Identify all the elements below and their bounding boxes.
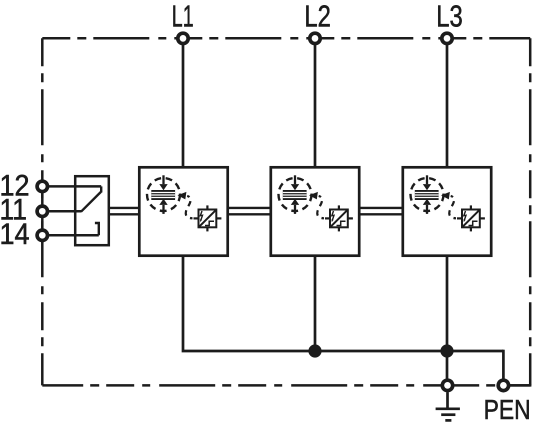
svg-text:L3: L3 <box>436 0 463 33</box>
solid border segment from PEN terminal to bottom-right corner <box>505 384 531 387</box>
dashed trigger line from trigger unit to spark gap F2 <box>317 196 324 218</box>
wire terminal 12 to changeover contact <box>46 185 101 188</box>
spark gap F1 dashed circle <box>147 178 180 211</box>
spark gap F2 electrode plate stack <box>283 190 307 200</box>
device enclosure dashed border, top edge <box>42 37 530 40</box>
trigger line arrowhead into spark gap F3 <box>441 192 450 200</box>
trigger unit A1 box <box>199 210 217 228</box>
trigger unit A3 box <box>462 210 480 228</box>
contact 12 fixed anvil tick <box>100 186 102 192</box>
dashed trigger line from trigger unit to spark gap F1 <box>186 196 193 218</box>
spark gap F2 dashed circle <box>279 178 312 211</box>
wire terminal 14 to changeover contact <box>46 234 99 237</box>
device enclosure dashed border, left edge <box>41 38 44 385</box>
mechanical linkage K1 to module U1 (double line) <box>110 208 139 214</box>
spark gap F3 dashed circle <box>411 178 444 211</box>
wire L1 module U1 to PEN bus with corner <box>183 256 503 352</box>
trigger unit A1 diagonal <box>199 209 217 227</box>
trigger unit A1 pin stubs <box>194 205 222 231</box>
wire L2 phase drop (terminal to module U2) <box>314 43 317 167</box>
dashed trigger line from trigger unit to spark gap F3 <box>449 196 456 218</box>
trigger unit A2 step waveform glyph <box>337 221 346 225</box>
trigger line arrowhead into spark gap F1 <box>178 192 187 200</box>
mechanical linkage module U2 to U3 (double line) <box>360 208 403 214</box>
device enclosure dashed border, right edge <box>529 38 532 385</box>
junction node L3/bus <box>440 344 453 357</box>
mechanical linkage module U1 to U2 (double line) <box>228 208 271 214</box>
terminal earth <box>442 380 452 390</box>
terminal 12 <box>37 181 47 191</box>
trigger unit A1 step waveform glyph <box>205 221 214 225</box>
spark gap F2 top compression arrow <box>291 175 299 190</box>
wire L2 module U2 to PEN bus <box>314 256 317 352</box>
trigger unit A1 lightning impulse glyph <box>200 211 203 222</box>
solid border segment joining terminals 12-11-14 <box>41 179 44 243</box>
trigger line arrowhead into spark gap F2 <box>309 192 318 200</box>
wire L3 module U3 through bus junction to earth terminal <box>446 256 449 381</box>
trigger unit A3 step waveform glyph <box>469 221 478 225</box>
svg-text:PEN: PEN <box>484 394 531 425</box>
spark gap F2 bottom compression arrow <box>291 199 299 214</box>
SPD module U3 (L3) enclosure box <box>403 167 491 255</box>
svg-text:L2: L2 <box>304 0 331 33</box>
SPD module U2 (L2) enclosure box <box>271 167 359 255</box>
trigger unit A2 lightning impulse glyph <box>331 211 334 222</box>
terminal 11 <box>37 206 47 216</box>
wire PEN bus drop to PEN terminal <box>502 350 505 380</box>
terminal L3 <box>442 33 452 43</box>
terminal L2 <box>310 33 320 43</box>
svg-text:14: 14 <box>0 218 30 251</box>
contact 14 open anvil hook <box>95 223 99 235</box>
wire L1 phase drop (terminal to module U1) <box>182 43 185 167</box>
spark gap F1 electrode plate stack <box>151 190 175 200</box>
SPD module U1 (L1) enclosure box <box>139 167 227 255</box>
wire terminal 11 to changeover contact common <box>46 210 81 213</box>
terminal L1 <box>178 33 188 43</box>
junction node L2/bus <box>308 344 321 357</box>
svg-text:L1: L1 <box>172 0 194 33</box>
spark gap F3 top compression arrow <box>423 175 431 190</box>
terminal 14 <box>37 230 47 240</box>
spark gap F3 electrode plate stack <box>415 190 439 200</box>
trigger unit A3 diagonal <box>462 209 480 227</box>
device enclosure dashed border, bottom edge <box>42 384 530 387</box>
terminal PEN <box>498 380 508 390</box>
spark gap F3 bottom compression arrow <box>423 199 431 214</box>
ground (earth) symbol <box>436 392 460 420</box>
wire L3 phase drop (terminal to module U3) <box>446 43 449 167</box>
spark gap F1 top compression arrow <box>159 175 167 190</box>
trigger unit A3 pin stubs <box>457 205 485 231</box>
trigger unit A3 lightning impulse glyph <box>463 211 466 222</box>
spark gap F1 bottom compression arrow <box>159 199 167 214</box>
changeover contact K1 moving blade <box>81 192 101 212</box>
trigger unit A2 box <box>330 210 348 228</box>
trigger unit A2 pin stubs <box>325 205 353 231</box>
remote signalling contact K1 box <box>75 176 109 245</box>
trigger unit A2 diagonal <box>330 209 348 227</box>
